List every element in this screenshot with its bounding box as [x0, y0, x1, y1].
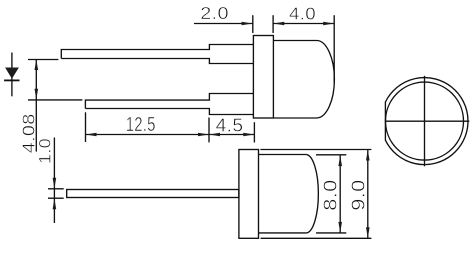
dimension 4.0 — [273, 15, 334, 82]
svg-text:2.0: 2.0 — [200, 3, 229, 23]
dimension 8.0 — [338, 155, 342, 233]
flange (side view top drawing) — [253, 36, 273, 119]
dimension 4.5 — [209, 122, 254, 142]
dimension 1.0 — [48, 138, 64, 224]
dimension 4.08 vertical line — [35, 59, 39, 152]
svg-text:12.5: 12.5 — [126, 113, 156, 136]
svg-text:9.0: 9.0 — [348, 179, 368, 211]
dimension 12.5 — [86, 112, 255, 142]
LED body (side view top drawing) — [273, 41, 334, 119]
centerline horizontal — [386, 120, 470, 122]
top view outer circle with flat — [385, 78, 468, 165]
wire: 4.08 top reference line — [28, 59, 58, 61]
centerline vertical — [424, 76, 426, 167]
top view inner circle — [386, 82, 464, 160]
bottom lead (cathode, lower) — [85, 94, 253, 115]
diode symbol — [4, 53, 19, 97]
flange (bottom drawing) — [239, 150, 259, 239]
dimension 9.0 — [260, 150, 371, 239]
svg-text:4.0: 4.0 — [289, 4, 316, 24]
svg-text:4.5: 4.5 — [216, 115, 244, 136]
top lead (anode, upper) — [61, 45, 253, 64]
svg-text:1.0: 1.0 — [35, 138, 54, 164]
dimension 2.0 — [194, 15, 273, 33]
wire: 4.08 bottom reference line — [28, 99, 82, 101]
svg-text:8.0: 8.0 — [320, 179, 340, 211]
LED body (bottom drawing) — [259, 155, 347, 233]
lead (bottom drawing) — [67, 190, 239, 198]
